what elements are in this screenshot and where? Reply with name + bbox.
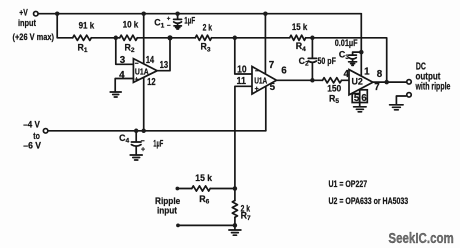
svg-text:8: 8 xyxy=(377,69,383,80)
capacitor C3 stub from pin1 line xyxy=(353,52,362,55)
svg-text:13: 13 xyxy=(160,60,169,71)
capacitor C4 lower lead xyxy=(135,146,137,155)
svg-text:7: 7 xyxy=(269,60,275,71)
svg-text:–: – xyxy=(167,22,171,29)
svg-text:C4: C4 xyxy=(119,133,129,145)
svg-text:91 k: 91 k xyxy=(79,21,95,31)
svg-text:+: + xyxy=(141,147,145,154)
junction: pin14 drop xyxy=(141,11,146,16)
svg-text:5: 5 xyxy=(354,93,360,104)
wire: ripple input lower xyxy=(180,225,235,229)
junction: pin7 drop xyxy=(263,11,268,16)
wire: V+ down to U2 pin 1 xyxy=(360,14,362,76)
svg-text:7: 7 xyxy=(374,82,380,93)
resistor R6 xyxy=(192,186,210,191)
op-amp U1A (first) xyxy=(133,59,157,83)
wire: R7 to ground node xyxy=(234,217,236,225)
resistor R1 xyxy=(73,35,92,40)
wire: node to U1A pin 3 xyxy=(116,38,134,65)
wire: V+ drop to U1A#2 pin 7 xyxy=(264,14,266,74)
junction: R7 ground node xyxy=(233,223,238,228)
svg-text:–6 V: –6 V xyxy=(23,140,41,150)
svg-text:(+26 V max): (+26 V max) xyxy=(13,32,55,42)
wire: U1A#1 output pin 13 up to rail xyxy=(157,38,170,71)
resistor R4 xyxy=(290,35,306,40)
terminal: -V input xyxy=(43,129,48,134)
terminal: DC output return xyxy=(407,93,412,98)
ground under U2 xyxy=(354,107,367,112)
wire: rail node down to pin 10 xyxy=(235,38,252,74)
ground under C1 xyxy=(174,26,181,29)
svg-text:10: 10 xyxy=(237,64,247,75)
svg-text:–: – xyxy=(141,138,145,145)
svg-text:input: input xyxy=(157,205,177,215)
svg-text:+: + xyxy=(255,86,259,93)
capacitor C1 lead xyxy=(177,14,179,20)
svg-text:R6: R6 xyxy=(199,194,209,206)
resistor R3 xyxy=(195,35,211,40)
junction: C1 tap xyxy=(175,11,180,16)
junction: output node xyxy=(384,80,389,85)
terminal: +V input xyxy=(34,11,39,16)
svg-text:15 k: 15 k xyxy=(292,22,307,32)
wire: R5 to U2 pin 4 xyxy=(342,79,350,81)
junction: C2 bottom node xyxy=(310,78,315,83)
svg-text:11: 11 xyxy=(237,76,247,87)
svg-text:–: – xyxy=(255,68,259,75)
U2 pin 5 box xyxy=(352,94,360,103)
svg-text:C2: C2 xyxy=(299,56,309,68)
svg-text:6: 6 xyxy=(281,66,287,77)
wire: U1A pin 4 to ground xyxy=(115,79,133,92)
ground under C3 xyxy=(349,62,357,66)
capacitor C2 top lead xyxy=(311,38,313,58)
svg-text:SeekIC.com: SeekIC.com xyxy=(388,231,453,247)
junction: C3 tap node xyxy=(359,50,364,55)
buffer U2 xyxy=(349,70,373,95)
wire: +V branch down to R1 level xyxy=(57,14,72,38)
capacitor C1 plates xyxy=(174,19,182,23)
svg-text:with ripple: with ripple xyxy=(415,81,451,92)
capacitor C2 bottom lead xyxy=(311,62,313,80)
svg-text:C3: C3 xyxy=(339,49,349,61)
svg-text:5: 5 xyxy=(270,82,276,93)
svg-text:U2: U2 xyxy=(352,76,363,87)
wire: U1A#2 output to R5 xyxy=(277,79,323,81)
wire: lower output terminal to ground xyxy=(396,96,406,105)
ground under R7 xyxy=(229,230,241,235)
svg-text:14: 14 xyxy=(146,55,155,66)
ground under C4 xyxy=(130,155,142,160)
svg-text:1µF: 1µF xyxy=(184,16,195,26)
junction: R1-R2 node xyxy=(114,36,119,41)
ground under pin 4 xyxy=(110,92,121,97)
wire: +V top rail xyxy=(38,13,361,15)
svg-text:15 k: 15 k xyxy=(195,173,212,183)
junction: C4 node xyxy=(134,129,139,134)
svg-text:R3: R3 xyxy=(201,42,211,54)
svg-text:U1A: U1A xyxy=(135,67,149,76)
capacitor C1 lower lead xyxy=(177,24,179,26)
svg-text:1: 1 xyxy=(364,67,370,78)
svg-text:150: 150 xyxy=(327,84,341,94)
capacitor C3 plates xyxy=(349,55,357,59)
svg-text:10 k: 10 k xyxy=(123,20,139,30)
svg-text:–4 V: –4 V xyxy=(23,119,40,129)
resistor R5 xyxy=(323,78,342,83)
svg-text:+V: +V xyxy=(19,8,28,18)
wire: node to R7 xyxy=(234,189,236,201)
capacitor C4 plates xyxy=(131,142,141,146)
svg-text:input: input xyxy=(18,18,36,28)
U2 pin 6 box xyxy=(360,90,368,103)
wire: ripple input to R6 xyxy=(179,188,192,190)
terminal: ripple input top xyxy=(176,187,180,191)
wire: R1 to R2 xyxy=(91,37,119,39)
wire: pin 11 down to ripple divider xyxy=(235,86,252,188)
svg-text:R1: R1 xyxy=(78,42,88,54)
wire: V+ drop to U1A pin 14 xyxy=(143,14,145,64)
ground at output xyxy=(390,105,404,110)
svg-text:R2: R2 xyxy=(125,42,135,54)
junction: R6-R7 node xyxy=(233,186,238,191)
terminal: ripple input bottom xyxy=(176,224,180,228)
svg-text:3: 3 xyxy=(120,55,126,66)
op-amp U1A (second) xyxy=(252,67,277,95)
wire: -V rail xyxy=(48,130,266,132)
svg-text:C1: C1 xyxy=(154,18,164,30)
svg-text:6: 6 xyxy=(361,93,367,104)
junction: pin10 node xyxy=(233,36,238,41)
wire: -V rail up to U1A#2 pin 5 xyxy=(265,87,267,131)
wire: R3 to R4 xyxy=(212,37,290,39)
svg-text:R5: R5 xyxy=(329,93,339,105)
svg-text:U1 = OP227: U1 = OP227 xyxy=(329,179,368,189)
capacitor C4 lead xyxy=(135,131,137,142)
svg-text:U1A: U1A xyxy=(254,76,267,85)
svg-text:–: – xyxy=(135,61,139,68)
junction: +V branch xyxy=(55,11,60,16)
resistor R2 xyxy=(120,35,138,40)
svg-text:R4: R4 xyxy=(296,41,306,53)
wire: U2 output to DC terminal xyxy=(373,81,406,83)
junction: pin12 node xyxy=(141,129,146,134)
wire: R6 to node xyxy=(210,188,235,190)
svg-text:U2 = OPA633 or HA5033: U2 = OPA633 or HA5033 xyxy=(329,196,409,206)
junction: U1A#1 output node xyxy=(167,35,172,40)
wire: R2 to R3 xyxy=(137,37,195,39)
wire: U2 pin boxes to ground xyxy=(359,103,361,107)
svg-text:0.01µF: 0.01µF xyxy=(335,38,358,48)
svg-text:+: + xyxy=(135,77,139,84)
svg-text:12: 12 xyxy=(147,77,156,88)
svg-text:4: 4 xyxy=(119,70,125,81)
svg-text:1µF: 1µF xyxy=(153,139,163,149)
terminal: DC output xyxy=(407,80,412,85)
svg-text:2 k: 2 k xyxy=(203,22,213,32)
junction: C2 top node xyxy=(310,36,315,41)
wire: U1A#1 pin 12 down to -V rail xyxy=(143,77,145,130)
capacitor C2 plates xyxy=(308,58,316,62)
wire: R4 to output node, down right side xyxy=(306,38,387,82)
capacitor C3 lower lead xyxy=(352,59,354,61)
resistor R7 xyxy=(232,201,237,218)
svg-text:50 pF: 50 pF xyxy=(318,56,337,66)
svg-text:4: 4 xyxy=(344,69,350,80)
